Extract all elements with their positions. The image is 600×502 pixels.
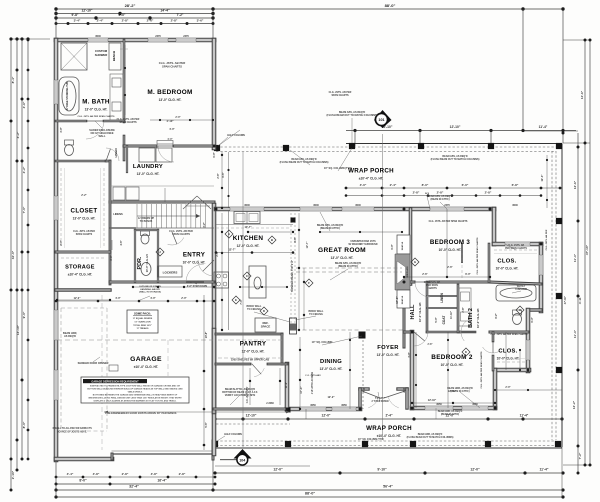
svg-text:2'-4": 2'-4" — [390, 183, 397, 187]
svg-text:CLOSET: CLOSET — [71, 208, 98, 215]
svg-text:SUBTRACTED TO FRAMES RE-TYPE 2: SUBTRACTED TO FRAMES RE-TYPE 2 BOTTOM WA… — [90, 385, 181, 388]
svg-text:2'-8": 2'-8" — [485, 191, 492, 195]
svg-text:3040: 3040 — [313, 204, 319, 207]
svg-text:13'-0" CLG. HT.: 13'-0" CLG. HT. — [377, 353, 400, 357]
svg-text:FOYER: FOYER — [377, 345, 399, 351]
svg-text:13'-0" CLG. HT.: 13'-0" CLG. HT. — [137, 172, 160, 176]
svg-text:PER SPAN: PER SPAN — [426, 284, 438, 287]
svg-text:14'-10": 14'-10" — [16, 324, 20, 335]
svg-text:BEAM HDR, AS REQ'D: BEAM HDR, AS REQ'D — [438, 410, 463, 413]
svg-text:57 FREE STANDING TUB: 57 FREE STANDING TUB — [66, 82, 69, 111]
svg-text:(FLUSH BEAM OUT TO MATCH COLUM: (FLUSH BEAM OUT TO MATCH COLUMNS) — [431, 158, 480, 161]
svg-text:3040: 3040 — [512, 204, 518, 207]
svg-text:M. BEDROOM: M. BEDROOM — [147, 89, 192, 96]
svg-text:56'-4": 56'-4" — [383, 485, 393, 489]
svg-text:88'-0": 88'-0" — [305, 492, 316, 496]
great room fireplace built-ins — [395, 235, 410, 308]
svg-text:4'-11": 4'-11" — [578, 295, 582, 304]
svg-text:CLG. JSTS. AB PER: CLG. JSTS. AB PER — [73, 230, 95, 233]
laundry fixtures — [110, 148, 214, 200]
svg-text:7'-0": 7'-0" — [240, 299, 243, 304]
svg-text:8'-0": 8'-0" — [422, 183, 429, 187]
svg-text:6'-8" STEP DOWN: 6'-8" STEP DOWN — [187, 285, 208, 288]
svg-text:6'-0": 6'-0" — [391, 244, 394, 249]
svg-text:12'-10": 12'-10" — [428, 398, 437, 402]
svg-text:2'-8": 2'-8" — [179, 472, 186, 476]
svg-text:9'-0": 9'-0" — [22, 311, 26, 318]
kitchen east beam columns — [290, 213, 297, 334]
master bath fixtures — [59, 43, 123, 156]
svg-text:(BEAM IN ATTIC): (BEAM IN ATTIC) — [320, 227, 340, 230]
svg-text:11'-4": 11'-4" — [539, 125, 548, 129]
svg-text:TO CEILING: TO CEILING — [309, 313, 323, 316]
svg-text:88'-0": 88'-0" — [385, 3, 396, 8]
svg-text:3'-6": 3'-6" — [197, 19, 204, 23]
svg-text:2470: 2470 — [183, 35, 189, 38]
svg-text:(BEAM IN ATTIC): (BEAM IN ATTIC) — [430, 198, 449, 201]
svg-text:1505 SHELVES W/ UPPER CAB: 1505 SHELVES W/ UPPER CAB — [231, 358, 269, 362]
svg-text:D: D — [263, 309, 266, 313]
svg-text:4'-6": 4'-6" — [120, 240, 123, 245]
svg-text:11" SUBFLOOR: 11" SUBFLOOR — [134, 321, 151, 323]
svg-text:7'-2": 7'-2" — [578, 452, 582, 459]
svg-text:2'-2": 2'-2" — [81, 194, 87, 197]
leader lines — [93, 118, 521, 408]
bath2 fixtures — [459, 285, 536, 326]
stairs — [110, 204, 214, 228]
svg-text:4'-4": 4'-4" — [67, 472, 74, 476]
svg-text:(FLUSH BEAM OUT TO MATCH COLUM: (FLUSH BEAM OUT TO MATCH COLUMNS) — [407, 436, 454, 439]
svg-text:(FLUSH BEAM OUT TO MATCH COLUM: (FLUSH BEAM OUT TO MATCH COLUMNS) — [326, 114, 377, 117]
svg-text:2'-0": 2'-0" — [505, 386, 510, 389]
entry lockers — [158, 266, 182, 277]
svg-text:2'-8": 2'-8" — [122, 19, 129, 23]
svg-text:J: J — [159, 250, 161, 254]
svg-text:CLOS.: CLOS. — [498, 349, 517, 355]
svg-text:8'-0": 8'-0" — [79, 479, 87, 483]
svg-text:UNPAINTED BAR JSTS: UNPAINTED BAR JSTS — [350, 240, 376, 243]
svg-text:3050: 3050 — [341, 404, 347, 407]
svg-text:2'-0": 2'-0" — [175, 116, 180, 119]
svg-text:2'-8": 2'-8" — [462, 307, 465, 312]
exterior and interior walls — [56, 40, 541, 460]
svg-text:2470: 2470 — [155, 35, 161, 38]
svg-text:2-3068: 2-3068 — [266, 402, 274, 405]
svg-text:SHINGED DOOR OPENER: SHINGED DOOR OPENER — [78, 362, 109, 365]
svg-text:9'-10": 9'-10" — [377, 468, 387, 472]
svg-text:8'-4": 8'-4" — [11, 76, 15, 83]
svg-text:PRE-ENGINEERED FLOOR JOISTS AB: PRE-ENGINEERED FLOOR JOISTS ABOVE 48" PE… — [105, 412, 177, 415]
svg-text:7'-0": 7'-0" — [22, 206, 26, 213]
svg-text:10" SQ. COLUMN: 10" SQ. COLUMN — [312, 341, 333, 344]
svg-text:2'-4": 2'-4" — [385, 414, 393, 418]
svg-text:12'-0": 12'-0" — [273, 468, 283, 472]
interior dimension texture — [55, 35, 567, 466]
svg-text:11'-4": 11'-4" — [573, 253, 577, 262]
svg-text:3050: 3050 — [310, 404, 316, 407]
svg-text:(BEAM IN ATTIC): (BEAM IN ATTIC) — [441, 413, 460, 416]
svg-text:2'-0": 2'-0" — [181, 297, 187, 300]
svg-text:3040: 3040 — [355, 204, 361, 207]
svg-text:13'-0" CLG. HT.: 13'-0" CLG. HT. — [320, 367, 343, 371]
svg-text:(FLUSH BEAM OUT TO MATCH COLUM: (FLUSH BEAM OUT TO MATCH COLUMNS) — [280, 161, 329, 164]
svg-text:W/ MASONRY SURROUND: W/ MASONRY SURROUND — [349, 243, 378, 246]
svg-text:CLG. JSTS. AB PER SPAN CHARTS: CLG. JSTS. AB PER SPAN CHARTS — [78, 115, 115, 118]
svg-text:4'-8": 4'-8" — [151, 472, 158, 476]
svg-text:(WALL IN STORAGE): (WALL IN STORAGE) — [139, 291, 161, 294]
svg-text:±10'-4" CLG. HT.: ±10'-4" CLG. HT. — [68, 273, 93, 277]
svg-text:STORAGE: STORAGE — [65, 265, 95, 271]
svg-text:10'-0" CLG. HT.: 10'-0" CLG. HT. — [476, 308, 480, 328]
svg-text:10'-0" CLG. HT.: 10'-0" CLG. HT. — [418, 302, 422, 322]
svg-text:2'-8": 2'-8" — [217, 173, 220, 178]
dining/foyer beam column — [286, 332, 366, 413]
svg-text:5'-0": 5'-0" — [435, 317, 438, 322]
svg-text:4'-0": 4'-0" — [360, 183, 367, 187]
svg-text:4'-0": 4'-0" — [115, 297, 121, 300]
svg-text:2'-8": 2'-8" — [428, 344, 433, 346]
svg-text:BOTTOMED BETWEEN THE GARAGE AN: BOTTOMED BETWEEN THE GARAGE AND GREENSID… — [93, 394, 178, 397]
svg-text:CLG. JSTS. AB PER SPAN CHARTS: CLG. JSTS. AB PER SPAN CHARTS — [491, 333, 528, 336]
svg-text:2'-6": 2'-6" — [447, 266, 453, 269]
svg-text:COAT: COAT — [442, 316, 446, 325]
svg-text:PDR.: PDR. — [137, 256, 143, 269]
svg-text:12'-0": 12'-0" — [322, 414, 331, 418]
svg-text:C.O. JSTS ABV: C.O. JSTS ABV — [246, 386, 249, 403]
svg-text:12'-0": 12'-0" — [74, 297, 82, 300]
svg-text:11'-4": 11'-4" — [573, 329, 577, 338]
svg-text:CLG. JSTS. AB PER SPAN CHARTS: CLG. JSTS. AB PER SPAN CHARTS — [480, 351, 483, 388]
svg-text:CLG. JSTS. AB: CLG. JSTS. AB — [508, 244, 525, 247]
svg-text:PANTRY: PANTRY — [240, 341, 267, 348]
svg-text:HALF COLUMN: HALF COLUMN — [227, 134, 245, 137]
svg-text:104: 104 — [239, 458, 245, 462]
svg-text:TAPERED BEAM, TOP 9'-0": TAPERED BEAM, TOP 9'-0" — [291, 259, 294, 292]
svg-text:2'-8": 2'-8" — [122, 472, 129, 476]
svg-text:12'-7": 12'-7" — [228, 248, 236, 252]
svg-text:BOTTOM WALL DEADLINE INTERIOR: BOTTOM WALL DEADLINE INTERIOR BUILD-UP G… — [87, 388, 183, 391]
svg-text:2'-8": 2'-8" — [171, 19, 178, 23]
svg-text:BENCH: BENCH — [112, 51, 116, 61]
svg-text:BEDROOM 3: BEDROOM 3 — [430, 239, 470, 246]
svg-text:12'-2": 12'-2" — [327, 395, 335, 399]
svg-text:2'-4": 2'-4" — [403, 387, 406, 392]
svg-text:±10'-4" CLG. HT.: ±10'-4" CLG. HT. — [377, 434, 402, 438]
svg-text:LINEN: LINEN — [114, 149, 118, 158]
svg-text:34'-0": 34'-0" — [11, 250, 15, 259]
svg-text:BATH 2: BATH 2 — [468, 308, 474, 328]
svg-text:4'-2": 4'-2" — [22, 166, 26, 173]
svg-text:10" SQ. COLUMN (TYP.): 10" SQ. COLUMN (TYP.) — [324, 167, 352, 170]
svg-text:E: E — [235, 298, 237, 302]
svg-text:3'-0": 3'-0" — [408, 352, 411, 357]
svg-text:WRAP PORCH: WRAP PORCH — [366, 425, 412, 432]
svg-text:10'-0" CLG. HT.: 10'-0" CLG. HT. — [439, 248, 462, 252]
svg-text:17'-0": 17'-0" — [395, 296, 399, 304]
svg-text:GARAGE: GARAGE — [130, 356, 162, 363]
svg-text:12'-7": 12'-7" — [306, 241, 309, 249]
svg-text:2' STEP DOWN: 2' STEP DOWN — [372, 400, 389, 403]
section line 104 — [220, 152, 252, 465]
svg-text:CLG. JSTS. AB PER SPAN CHARTS: CLG. JSTS. AB PER SPAN CHARTS — [429, 220, 468, 223]
svg-text:4'x8' ATTIC ACCESS: 4'x8' ATTIC ACCESS — [311, 371, 314, 394]
svg-text:11'-4": 11'-4" — [520, 414, 529, 418]
svg-text:C: C — [246, 274, 249, 278]
svg-text:SHOWER: SHOWER — [95, 53, 108, 57]
svg-text:3040: 3040 — [95, 35, 101, 38]
stair riser note box — [127, 310, 158, 333]
svg-text:SOME PACK:: SOME PACK: — [134, 312, 151, 316]
svg-text:12'-0": 12'-0" — [540, 174, 544, 182]
svg-text:WEIGHING/INCLUDING FINAL DESIG: WEIGHING/INCLUDING FINAL DESIGN UNIT LES… — [88, 397, 182, 400]
svg-text:7'-2": 7'-2" — [177, 13, 184, 17]
svg-text:3050: 3050 — [436, 403, 442, 406]
svg-text:2'-10": 2'-10" — [11, 470, 15, 479]
svg-text:SPAN CHARTS: SPAN CHARTS — [331, 94, 348, 97]
svg-text:(BEAM IN ATTIC): (BEAM IN ATTIC) — [338, 265, 358, 268]
svg-text:AS REQ'D: AS REQ'D — [64, 335, 76, 338]
svg-text:13'-0" CLG. HT.: 13'-0" CLG. HT. — [85, 108, 108, 112]
svg-text:12'-10": 12'-10" — [448, 389, 457, 393]
svg-text:TUB/SHWR: TUB/SHWR — [515, 289, 528, 291]
svg-text:2'-8": 2'-8" — [437, 191, 444, 195]
svg-text:3'-6": 3'-6" — [110, 255, 113, 260]
svg-text:101: 101 — [378, 118, 384, 122]
svg-text:M. BATH: M. BATH — [82, 99, 110, 106]
svg-text:11'-0": 11'-0" — [285, 382, 288, 388]
svg-text:2'-6": 2'-6" — [422, 273, 428, 276]
svg-text:±10'-4" CLG. HT.: ±10'-4" CLG. HT. — [134, 365, 159, 369]
svg-text:9'-8": 9'-8" — [72, 13, 79, 17]
svg-text:LINENS: LINENS — [113, 212, 123, 216]
svg-text:10'-0" CLG. HT.: 10'-0" CLG. HT. — [496, 267, 519, 271]
garage depression note box — [81, 377, 189, 403]
svg-text:13'-0" CLG. HT.: 13'-0" CLG. HT. — [331, 256, 354, 260]
svg-text:WALL: WALL — [98, 135, 106, 138]
svg-text:HALF COLUMN: HALF COLUMN — [224, 433, 242, 436]
svg-text:8'-6": 8'-6" — [222, 172, 225, 177]
svg-text:13'-0" CLG. HT.: 13'-0" CLG. HT. — [159, 98, 182, 102]
svg-text:SPAN CHARTS: SPAN CHARTS — [119, 121, 136, 124]
svg-text:BEAM HDR, AS REQ'D: BEAM HDR, AS REQ'D — [418, 433, 443, 436]
interior tiny dims — [60, 119, 534, 399]
svg-text:2'-4": 2'-4" — [97, 19, 104, 23]
entry stoop — [183, 134, 245, 441]
svg-text:12'-6": 12'-6" — [573, 180, 577, 189]
wrap porch — [212, 143, 562, 448]
windows — [55, 39, 542, 410]
svg-text:12'-10": 12'-10" — [81, 9, 92, 13]
svg-text:KITCHEN: KITCHEN — [233, 235, 264, 242]
small annotations — [63, 61, 548, 441]
svg-text:12'-0" CLG. HT.: 12'-0" CLG. HT. — [237, 244, 260, 248]
svg-text:47'-10": 47'-10" — [563, 295, 567, 304]
svg-text:11'-4": 11'-4" — [539, 468, 548, 472]
svg-text:3050: 3050 — [472, 403, 478, 406]
svg-text:28'-2": 28'-2" — [125, 3, 136, 8]
svg-text:4'-0": 4'-0" — [167, 138, 172, 141]
svg-text:3'-4": 3'-4" — [74, 19, 81, 23]
svg-text:DINING: DINING — [320, 359, 342, 365]
svg-text:SPAN CHARTS: SPAN CHARTS — [162, 64, 182, 68]
svg-text:2'-8": 2'-8" — [413, 191, 420, 195]
svg-text:G: G — [414, 260, 417, 264]
svg-text:4'-6": 4'-6" — [22, 101, 26, 108]
svg-text:VERIFY LOCATION @ SITE: VERIFY LOCATION @ SITE — [225, 394, 256, 397]
svg-text:WHT/LT: WHT/LT — [517, 286, 526, 288]
svg-text:10'-0" CLG. HT.: 10'-0" CLG. HT. — [441, 363, 464, 367]
svg-text:12'-2": 12'-2" — [572, 400, 576, 409]
svg-text:6'-8": 6'-8" — [512, 183, 519, 187]
pantry shelves — [218, 340, 282, 362]
svg-text:10'-8": 10'-8" — [205, 332, 208, 339]
svg-text:2'-4": 2'-4" — [363, 387, 366, 392]
svg-text:FIREPLACE: FIREPLACE — [406, 266, 409, 278]
svg-text:12'-7": 12'-7" — [244, 225, 252, 229]
room labels — [65, 49, 519, 438]
svg-text:4'-2": 4'-2" — [16, 131, 20, 138]
svg-text:GREAT ROOM: GREAT ROOM — [318, 247, 366, 254]
svg-text:3'-2": 3'-2" — [203, 222, 206, 227]
svg-text:12'-0": 12'-0" — [470, 468, 480, 472]
closet rods — [61, 168, 537, 394]
svg-text:12'-0" CLG. HT.: 12'-0" CLG. HT. — [242, 350, 265, 354]
svg-text:A: A — [228, 232, 231, 236]
svg-text:CLG. JSTS. AB PER: CLG. JSTS. AB PER — [545, 229, 548, 250]
svg-text:2'-0": 2'-0" — [60, 240, 63, 245]
svg-text:4' WALL TO ALLOW FOR AIRDUCTS: 4' WALL TO ALLOW FOR AIRDUCTS — [52, 427, 92, 430]
svg-text:ENTRY: ENTRY — [183, 252, 206, 259]
hvac diamond symbols — [156, 230, 524, 356]
svg-text:SPACE: SPACE — [261, 325, 271, 329]
svg-text:5'-6": 5'-6" — [205, 422, 208, 427]
svg-text:11'-10": 11'-10" — [450, 310, 453, 319]
svg-text:9'-8": 9'-8" — [294, 237, 297, 242]
svg-text:10'-0" CLG. HT.: 10'-0" CLG. HT. — [183, 261, 206, 265]
svg-text:SPAN CHARTS: SPAN CHARTS — [172, 233, 190, 236]
powder room fixtures — [141, 231, 152, 276]
svg-text:10'-0" CLG. HT.: 10'-0" CLG. HT. — [145, 253, 149, 272]
svg-text:14'-6": 14'-6" — [580, 90, 584, 99]
svg-text:4'-8": 4'-8" — [93, 472, 100, 476]
svg-text:47'-10": 47'-10" — [585, 244, 589, 255]
svg-text:12'-10": 12'-10" — [450, 125, 461, 129]
svg-text:CLG. JSTS. AB PER SPAN CHARTS: CLG. JSTS. AB PER SPAN CHARTS — [476, 237, 479, 274]
svg-text:CHARTS: CHARTS — [427, 287, 437, 290]
svg-text:LOCKERS: LOCKERS — [163, 271, 178, 275]
svg-text:4'-0": 4'-0" — [150, 297, 156, 300]
door swings — [86, 121, 499, 408]
svg-text:13'-0" CLG. HT.: 13'-0" CLG. HT. — [73, 217, 96, 221]
airduct note — [52, 427, 92, 434]
svg-text:CLOS.: CLOS. — [497, 259, 516, 265]
svg-text:B: B — [271, 238, 274, 242]
svg-text:DISPLAYS 2 ONLY ALARMS AT ANTI: DISPLAYS 2 ONLY ALARMS AT ANTIDOTES BARR… — [94, 400, 177, 403]
svg-text:12'-10": 12'-10" — [246, 414, 257, 418]
svg-text:32'-4": 32'-4" — [129, 485, 139, 489]
svg-text:PER SPAN CHARTS: PER SPAN CHARTS — [505, 247, 527, 250]
svg-text:TABLE DRWLS.: TABLE DRWLS. — [128, 391, 143, 394]
svg-text:LAUNDRY: LAUNDRY — [133, 164, 163, 170]
svg-text:3040: 3040 — [244, 204, 250, 207]
svg-text:2470: 2470 — [444, 204, 450, 207]
svg-text:6'-4": 6'-4" — [531, 317, 534, 322]
svg-text:14'-4": 14'-4" — [160, 9, 170, 13]
svg-text:TO CEILING: TO CEILING — [247, 308, 261, 311]
svg-text:17 TREADS: 17 TREADS — [136, 327, 149, 330]
svg-text:4'-0": 4'-0" — [169, 128, 175, 131]
svg-text:8'-0": 8'-0" — [22, 421, 26, 428]
svg-text:HALL: HALL — [410, 304, 416, 319]
svg-text:GARAGE DEPRESSION REQUIREMENT: GARAGE DEPRESSION REQUIREMENT — [91, 380, 139, 383]
svg-text:TOTAL RISE 10'6": TOTAL RISE 10'6" — [133, 324, 152, 327]
svg-text:6'-0": 6'-0" — [465, 273, 471, 276]
svg-text:TO BONUS: TO BONUS — [140, 220, 153, 223]
svg-text:CLG. JSTS. AB: CLG. JSTS. AB — [424, 281, 441, 284]
svg-text:6'-0": 6'-0" — [462, 183, 469, 187]
svg-text:F: F — [308, 281, 310, 285]
svg-text:4'-10": 4'-10" — [166, 119, 174, 123]
svg-text:17 EQUAL RISERS: 17 EQUAL RISERS — [133, 317, 153, 320]
svg-text:3'-0": 3'-0" — [60, 127, 63, 132]
svg-text:10" SQ. COLUMN (TYP.): 10" SQ. COLUMN (TYP.) — [358, 439, 384, 441]
svg-text:±10'-4" CLG. HT.: ±10'-4" CLG. HT. — [359, 177, 384, 181]
kitchen fixtures — [214, 211, 293, 332]
svg-text:H: H — [519, 308, 521, 312]
ceiling beam dashed lines — [57, 49, 403, 450]
svg-text:17'-4": 17'-4" — [299, 386, 303, 394]
svg-text:SEAT+B: SEAT+B — [401, 241, 404, 250]
svg-text:WRAP PORCH: WRAP PORCH — [348, 168, 394, 175]
svg-text:8'-2": 8'-2" — [495, 313, 498, 318]
svg-text:2'-6": 2'-6" — [147, 19, 154, 23]
svg-text:SEAT+B: SEAT+B — [401, 295, 404, 304]
entry closet door — [168, 232, 184, 245]
svg-text:4'-0": 4'-0" — [119, 13, 126, 17]
svg-text:SPAN CHARTS: SPAN CHARTS — [76, 233, 93, 236]
svg-text:16'-4": 16'-4" — [157, 479, 167, 483]
section line 101 — [374, 110, 392, 440]
svg-text:HANDRAIL ABOVE: HANDRAIL ABOVE — [140, 288, 160, 291]
svg-text:6'-0": 6'-0" — [213, 152, 216, 157]
svg-text:LINEN: LINEN — [440, 293, 444, 303]
